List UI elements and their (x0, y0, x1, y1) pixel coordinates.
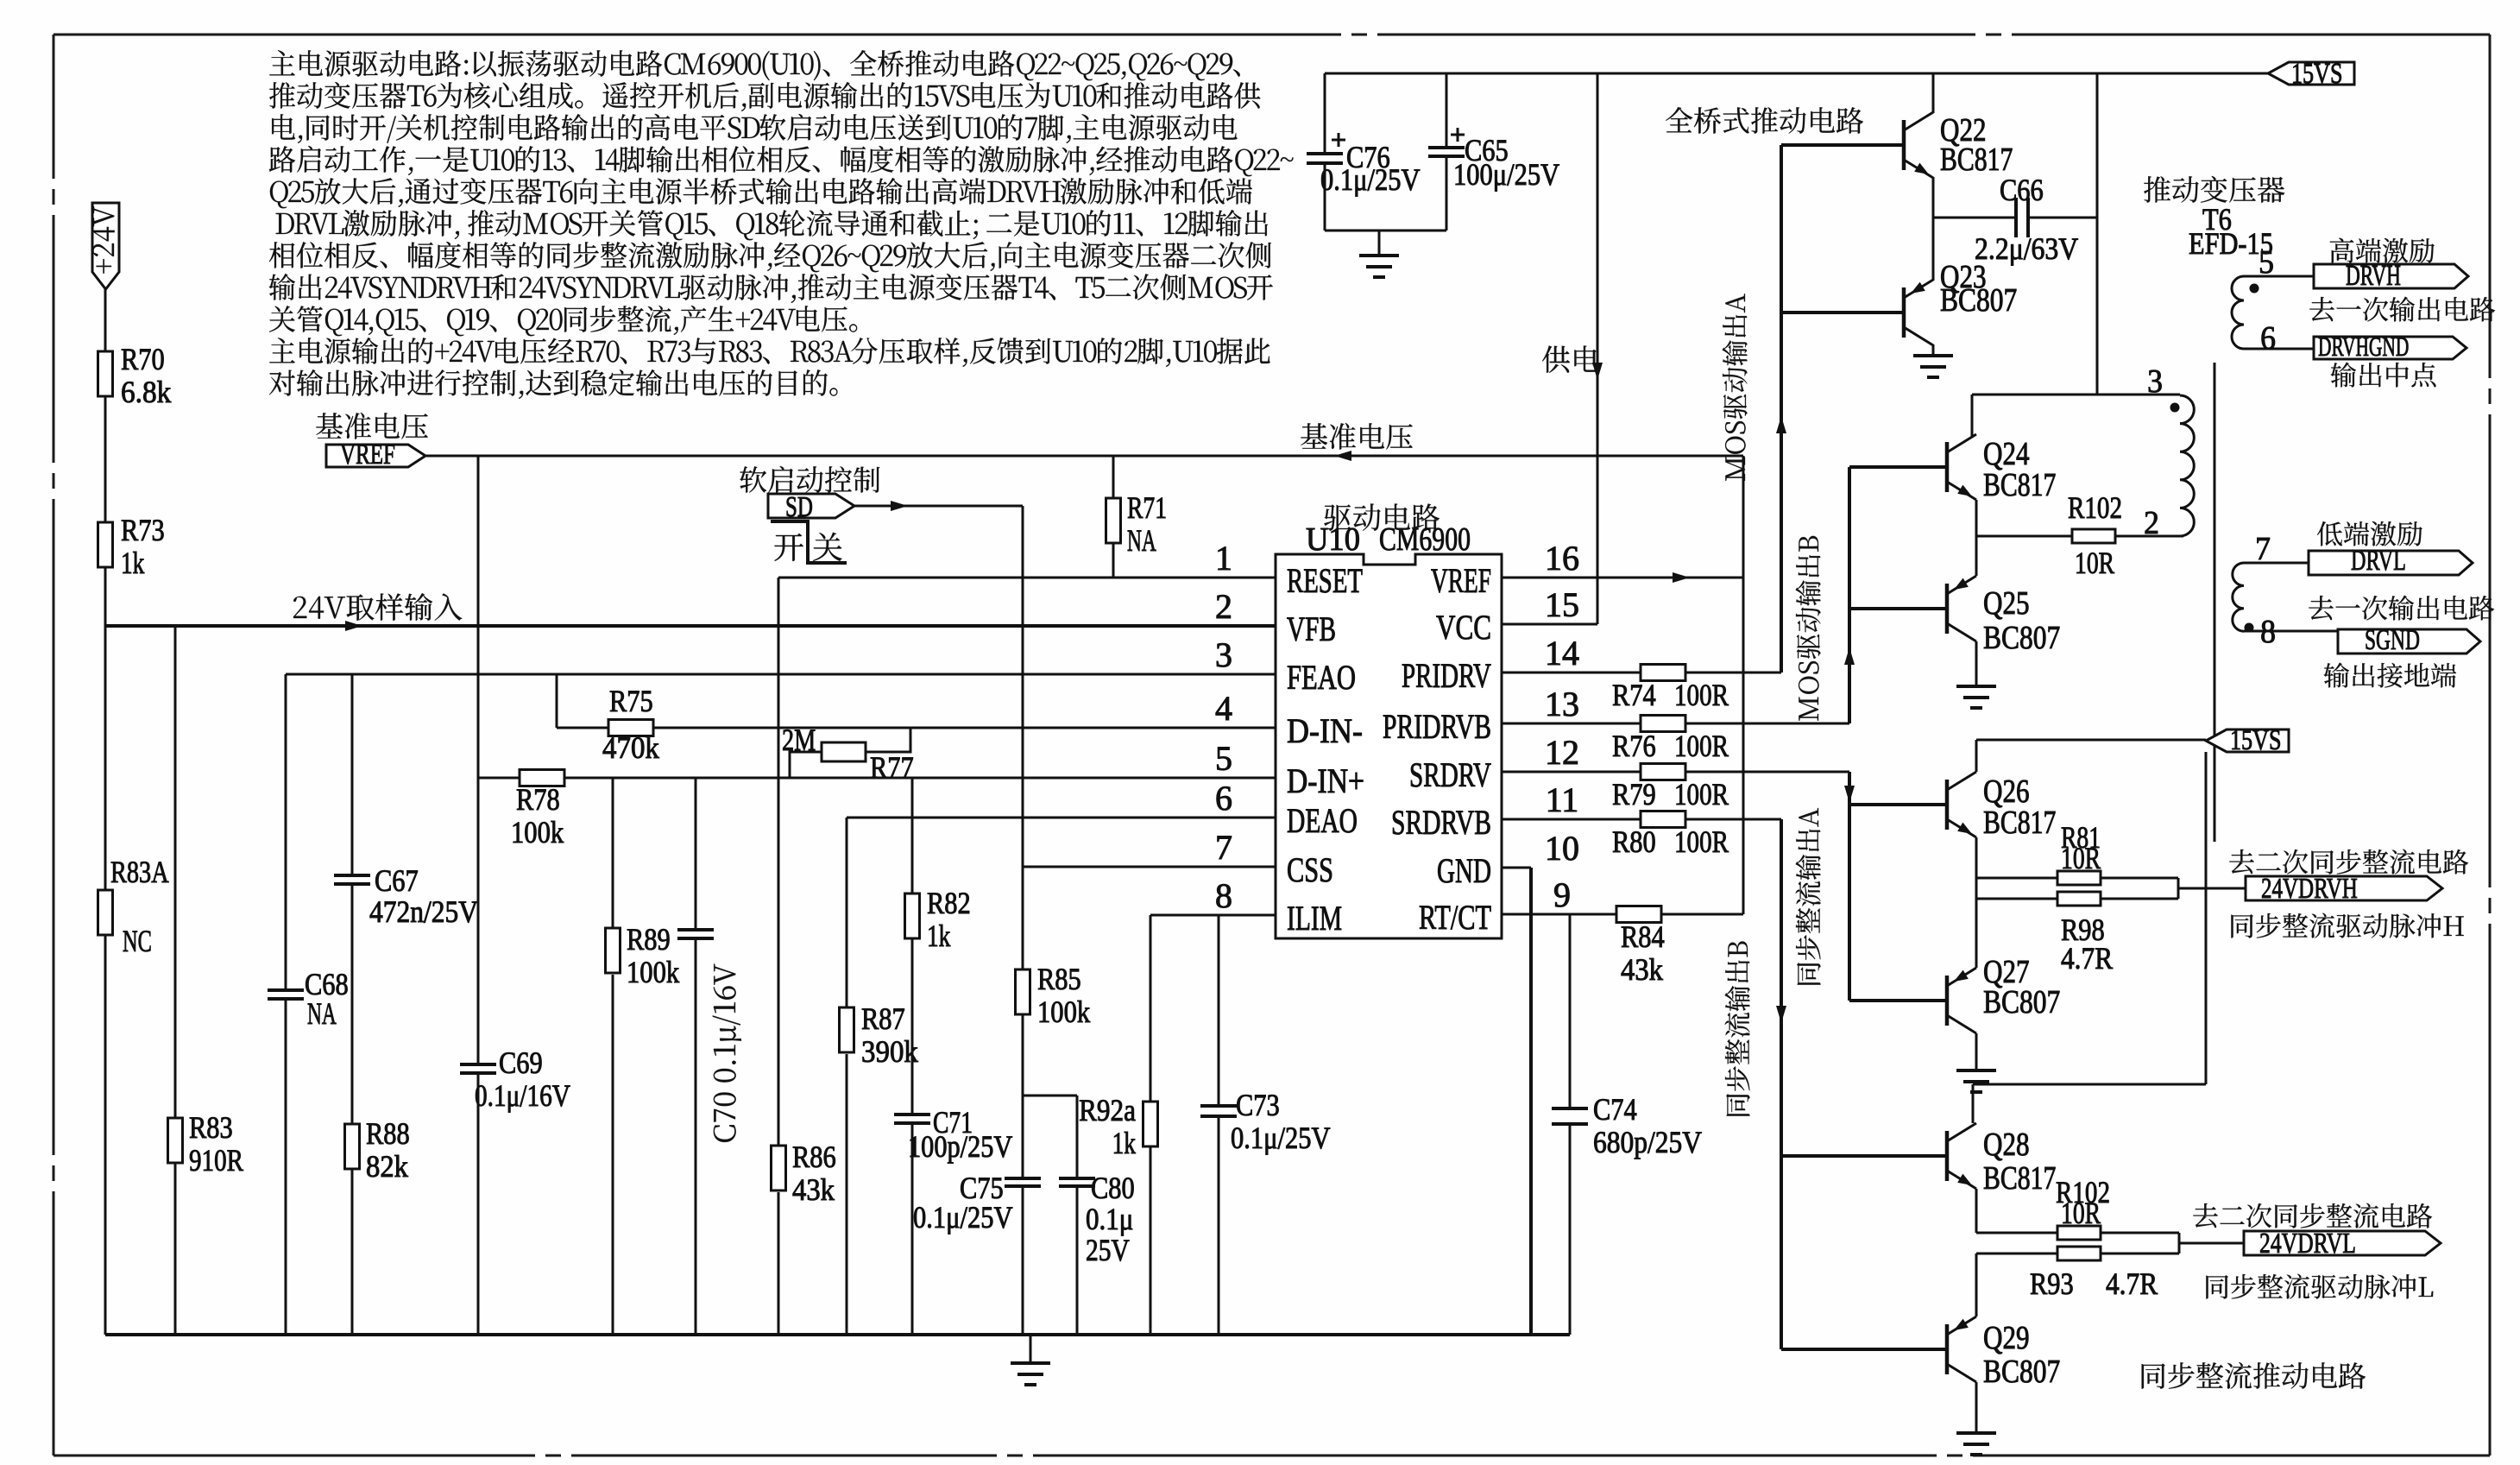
net DRVL tag (2317, 521, 2422, 546)
svg-text:R85: R85 (1037, 962, 1081, 996)
svg-text:472n/25V: 472n/25V (369, 894, 478, 929)
label sync rectifier driver (2142, 1362, 2366, 1389)
svg-text:2: 2 (2144, 505, 2159, 541)
svg-text:R78: R78 (516, 782, 560, 817)
svg-text:43k: 43k (1621, 952, 1663, 987)
resistor R79 (1502, 771, 1641, 774)
svg-text:100R: 100R (1674, 824, 1729, 859)
svg-text:2M: 2M (782, 723, 816, 757)
svg-text:10R: 10R (2061, 841, 2101, 875)
svg-text:R76: R76 (1612, 729, 1656, 763)
wire pin5 D-IN+ (478, 777, 1276, 780)
svg-text:0.1μ: 0.1μ (1086, 1202, 1133, 1236)
ground Q25 (1956, 685, 1996, 688)
svg-text:5: 5 (1215, 739, 1232, 778)
wire Q26 R98 join (1975, 878, 1978, 899)
svg-text:VCC: VCC (1436, 608, 1491, 647)
resistor R86 column (778, 578, 780, 1146)
ground Q29 (1956, 1431, 1996, 1435)
resistor R98 (1976, 898, 2057, 900)
wire MOS drive output A (1780, 145, 1783, 673)
svg-text:RT/CT: RT/CT (1419, 898, 1491, 937)
resistor R89 (612, 778, 614, 928)
capacitor C73 (1218, 915, 1220, 1106)
svg-text:BC817: BC817 (1983, 805, 2056, 841)
svg-text:1k: 1k (121, 546, 144, 580)
ground bus (105, 1333, 1570, 1336)
ground Q23 (1913, 354, 1953, 357)
svg-text:SGND: SGND (2365, 624, 2420, 656)
svg-text:BC807: BC807 (1983, 1354, 2060, 1390)
svg-text:BC817: BC817 (1983, 1160, 2056, 1197)
wire sync rect output B (1780, 819, 1783, 1349)
svg-text:8: 8 (2260, 614, 2276, 650)
net 24VDRVL tag (2178, 1233, 2181, 1253)
svg-text:Q28: Q28 (1983, 1127, 2030, 1163)
svg-text:R84: R84 (1621, 919, 1665, 954)
svg-text:11: 11 (1546, 780, 1579, 819)
ground (1030, 1335, 1032, 1363)
svg-text:EFD-15: EFD-15 (2189, 226, 2273, 261)
wire VREF bus (425, 455, 1743, 458)
capacitor C75 (1022, 1096, 1024, 1178)
svg-text:0.1μ/25V: 0.1μ/25V (1231, 1121, 1331, 1155)
svg-text:6: 6 (1215, 779, 1232, 818)
capacitor C65 (1446, 73, 1448, 148)
capacitor C67 / resistor R88 column (351, 674, 354, 875)
svg-text:0.1μ/25V: 0.1μ/25V (1320, 162, 1421, 197)
net 15VS tag (2268, 62, 2354, 85)
svg-text:16: 16 (1545, 539, 1579, 578)
resistor R81 (1976, 877, 2057, 880)
svg-text:R80: R80 (1612, 824, 1656, 859)
svg-text:R82: R82 (927, 886, 971, 920)
svg-text:100p/25V: 100p/25V (908, 1129, 1012, 1164)
resistor R78 (520, 770, 564, 786)
svg-text:15VS: 15VS (2291, 58, 2343, 90)
svg-text:82k: 82k (366, 1149, 408, 1184)
svg-text:NA: NA (307, 996, 337, 1031)
wire C76 C65 bottom (1325, 230, 1446, 232)
net +24V tag (92, 203, 119, 289)
transformer T6 primary winding (2180, 395, 2194, 536)
net 24VDRVH tag (2177, 878, 2180, 899)
svg-text:Q25: Q25 (1983, 585, 2030, 622)
svg-text:R83A: R83A (110, 855, 169, 889)
svg-text:C80: C80 (1091, 1171, 1135, 1205)
svg-text:1k: 1k (927, 919, 950, 953)
label T6 (2144, 176, 2284, 203)
description text (269, 50, 1240, 80)
svg-text:R74: R74 (1612, 678, 1656, 712)
svg-text:VFB: VFB (1287, 609, 1336, 648)
svg-text:CM6900: CM6900 (1379, 521, 1471, 558)
svg-text:6: 6 (2260, 320, 2276, 357)
svg-text:100k: 100k (511, 815, 564, 849)
wire pin1 RESET (778, 577, 1276, 579)
wire RT/CT pin9 (1502, 913, 1616, 916)
svg-text:R70: R70 (121, 342, 165, 376)
resistor R83A (98, 890, 113, 935)
svg-text:R102: R102 (2068, 490, 2122, 525)
svg-text:10: 10 (1545, 829, 1579, 868)
svg-text:4: 4 (1215, 689, 1232, 728)
svg-text:R75: R75 (609, 684, 653, 718)
svg-text:4.7R: 4.7R (2061, 941, 2113, 976)
svg-text:C66: C66 (2000, 173, 2044, 207)
svg-text:910R: 910R (189, 1143, 243, 1178)
capacitor C68 (285, 674, 287, 990)
svg-text:10R: 10R (2061, 1196, 2101, 1230)
svg-text:4.7R: 4.7R (2106, 1266, 2158, 1301)
svg-text:SD: SD (785, 491, 813, 523)
svg-text:SRDRVB: SRDRVB (1391, 803, 1491, 842)
svg-text:ILIM: ILIM (1287, 899, 1342, 938)
svg-text:3: 3 (2147, 363, 2163, 400)
transistor Q29 (1945, 1324, 1950, 1374)
resistor R82 / capacitor C71 column (911, 778, 914, 894)
svg-text:12: 12 (1545, 733, 1579, 772)
svg-text:470k: 470k (602, 730, 659, 765)
switch symbol (774, 534, 803, 561)
svg-text:3: 3 (1215, 635, 1232, 674)
svg-text:24VDRVL: 24VDRVL (2259, 1228, 2356, 1260)
svg-text:6.8k: 6.8k (121, 375, 171, 409)
svg-text:CSS: CSS (1287, 850, 1333, 889)
svg-text:SRDRV: SRDRV (1409, 755, 1491, 794)
svg-text:R79: R79 (1612, 777, 1656, 811)
svg-text:43k: 43k (792, 1172, 835, 1207)
svg-text:13: 13 (1545, 685, 1579, 723)
resistor R102 primary (1976, 535, 2072, 538)
svg-text:14: 14 (1545, 634, 1579, 673)
svg-text:100k: 100k (627, 955, 679, 989)
resistor R85 (1022, 867, 1024, 969)
resistor R82 (905, 894, 920, 938)
capacitor C80 (1023, 1095, 1077, 1097)
svg-text:R88: R88 (366, 1116, 410, 1151)
svg-text:15VS: 15VS (2230, 724, 2282, 756)
svg-text:D-IN-: D-IN- (1287, 711, 1363, 750)
resistor R102 sync (1976, 1232, 2057, 1235)
svg-text:PRIDRVB: PRIDRVB (1383, 707, 1491, 746)
svg-text:C67: C67 (375, 863, 419, 898)
svg-text:D-IN+: D-IN+ (1287, 761, 1364, 800)
resistor R92a (1150, 915, 1152, 1102)
wire pin6 DEAO (847, 817, 1276, 819)
svg-text:2: 2 (1215, 587, 1232, 626)
svg-text:VREF: VREF (340, 439, 395, 470)
label supply (1542, 345, 1599, 372)
transformer T6 winding 7-8 (2233, 563, 2244, 631)
svg-text:GND: GND (1437, 851, 1491, 890)
wire Q24 collector to T6 pin3 (2096, 73, 2099, 395)
net SGND tag (2338, 629, 2480, 654)
svg-text:C69: C69 (499, 1045, 543, 1080)
transistor Q25 (1945, 584, 1950, 634)
net DRVH tag (2330, 238, 2435, 263)
transistor Q24 (1945, 442, 1950, 492)
svg-text:25V: 25V (1086, 1233, 1130, 1267)
svg-text:FEAO: FEAO (1287, 658, 1356, 697)
svg-text:100R: 100R (1674, 777, 1729, 811)
transformer T6 winding 5-6 (2232, 276, 2244, 349)
svg-text:BC807: BC807 (1940, 282, 2017, 319)
svg-text:R93: R93 (2030, 1266, 2074, 1301)
svg-text:1k: 1k (1112, 1126, 1136, 1160)
capacitor C66 (1933, 217, 2016, 219)
svg-text:9: 9 (1553, 875, 1571, 914)
svg-text:DEAO: DEAO (1287, 801, 1358, 840)
svg-text:C73: C73 (1236, 1088, 1280, 1122)
net VREF tag (316, 413, 427, 439)
resistor R75 (556, 674, 558, 728)
transistor Q23 (1902, 287, 1906, 338)
capacitor C74 (1569, 914, 1572, 1108)
transistor Q26 (1945, 780, 1950, 830)
capacitor C67 (334, 874, 370, 877)
svg-text:DRVHGND: DRVHGND (2318, 331, 2409, 362)
wire sync rect output A (1848, 772, 1851, 1001)
svg-text:390k: 390k (861, 1034, 918, 1069)
resistor R77 2M (790, 752, 822, 778)
svg-text:100μ/25V: 100μ/25V (1453, 157, 1559, 192)
svg-text:DRVH: DRVH (2346, 260, 2401, 292)
svg-text:BC807: BC807 (1983, 984, 2060, 1020)
capacitor C76 (1324, 73, 1326, 154)
wire GND pin10 (1502, 867, 1531, 869)
wire VREF drop (477, 456, 480, 778)
resistor R87 (846, 818, 848, 1007)
resistor R80 (1502, 818, 1641, 821)
svg-text:R87: R87 (861, 1001, 905, 1036)
transistor Q28 (1945, 1131, 1950, 1181)
svg-text:R89: R89 (627, 922, 671, 957)
svg-text:R73: R73 (121, 513, 165, 547)
svg-text:C74: C74 (1593, 1092, 1637, 1127)
svg-text:24VDRVH: 24VDRVH (2261, 873, 2358, 905)
wire 24V sample input (105, 624, 1276, 628)
op-amp U10 CM6900 driver IC (1276, 554, 1502, 938)
svg-text:R77: R77 (870, 750, 914, 785)
resistor R76 (1502, 723, 1641, 725)
svg-text:R86: R86 (792, 1140, 836, 1174)
label full-bridge driver (1666, 107, 1863, 134)
wire 15VS rail (1325, 73, 2268, 75)
svg-text:BC807: BC807 (1983, 620, 2060, 656)
svg-text:Q29: Q29 (1983, 1320, 2030, 1356)
svg-text:R92a: R92a (1079, 1093, 1136, 1127)
svg-text:8: 8 (1215, 876, 1232, 915)
transistor Q27 (1945, 976, 1950, 1026)
wire Q28 collector to 15VS (2205, 752, 2208, 1084)
svg-text:NC: NC (123, 924, 152, 958)
ground C65 (1378, 230, 1381, 256)
resistor R74 (1502, 672, 1641, 674)
net 15VS tag 2 (1976, 739, 2206, 742)
resistor R71 (1112, 456, 1115, 498)
svg-text:15: 15 (1545, 585, 1579, 624)
svg-text:680p/25V: 680p/25V (1593, 1125, 1702, 1159)
resistor R86 (772, 1146, 786, 1190)
resistor R73 (98, 522, 113, 567)
svg-text:0.1μ/16V: 0.1μ/16V (475, 1078, 570, 1113)
wire pin7 CSS (1023, 866, 1276, 868)
svg-text:U10: U10 (1306, 521, 1360, 558)
svg-text:VREF: VREF (1431, 561, 1491, 600)
svg-text:100R: 100R (1674, 678, 1729, 712)
wire pin3 FEAO (286, 673, 1276, 676)
wire +24V rail (104, 289, 107, 351)
wire R83 branch (174, 626, 177, 1118)
resistor R88 (345, 1124, 360, 1169)
transformer T6 core (2214, 363, 2216, 842)
svg-text:10R: 10R (2075, 546, 2114, 580)
svg-text:0.1μ/25V: 0.1μ/25V (913, 1200, 1013, 1235)
svg-text:7: 7 (2255, 531, 2271, 567)
resistor R84 (1616, 906, 1661, 923)
net SD tag (740, 466, 879, 493)
wire pin8 ILIM (1150, 914, 1276, 917)
svg-text:RESET: RESET (1287, 561, 1363, 600)
svg-text:100R: 100R (1674, 729, 1729, 763)
wire MOS drive output B (1848, 467, 1851, 723)
transistor Q22 (1902, 120, 1906, 170)
svg-text:BC817: BC817 (1983, 467, 2056, 503)
ground Q27 (1956, 1069, 1996, 1072)
wire SD to CSS (854, 505, 1023, 508)
resistor R83 (168, 1118, 183, 1163)
wire VREF pin16 (1502, 577, 1743, 579)
capacitor C69 (477, 778, 480, 1064)
svg-text:R71: R71 (1127, 490, 1167, 525)
svg-text:1: 1 (1215, 539, 1232, 578)
wire VCC pin15 (1502, 623, 1597, 626)
svg-text:7: 7 (1215, 828, 1232, 867)
svg-text:PRIDRV: PRIDRV (1402, 656, 1491, 695)
capacitor C71 (894, 1113, 930, 1116)
svg-text:2.2μ/63V: 2.2μ/63V (1975, 231, 2078, 266)
net DRVHGND tag (2314, 337, 2466, 359)
svg-text:NA: NA (1127, 523, 1156, 558)
resistor R70 (98, 351, 113, 396)
svg-text:DRVL: DRVL (2351, 545, 2406, 577)
capacitor C70 (695, 778, 697, 930)
svg-text:100k: 100k (1037, 995, 1090, 1029)
resistor R93 (1976, 1253, 2057, 1255)
svg-text:R83: R83 (189, 1110, 233, 1145)
